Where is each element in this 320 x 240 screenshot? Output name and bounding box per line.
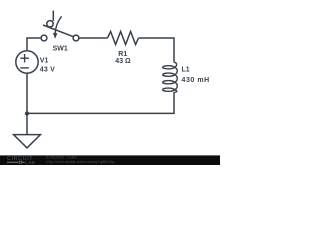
- wire: switch pole to resistor R1: [79, 37, 108, 39]
- inductor L1 coil loop 3: [163, 81, 174, 84]
- svg-text:R1: R1: [118, 51, 127, 58]
- V1 minus sign: [20, 67, 29, 69]
- voltage source V1 body: [16, 51, 38, 73]
- inductor L1 right connecting bumps: [174, 62, 177, 92]
- switch SW1 blade: [43, 25, 73, 37]
- svg-text:43 Ω: 43 Ω: [115, 58, 131, 65]
- svg-text:430 mH: 430 mH: [182, 77, 210, 84]
- switch SW1 top throw terminal: [47, 21, 53, 27]
- wire: V1 top lead to switch left terminal: [27, 38, 41, 51]
- watermark bar: [0, 155, 220, 165]
- svg-text:L1: L1: [182, 67, 190, 74]
- wire: junction to ground: [26, 113, 28, 134]
- wire: V1 bottom lead to junction: [26, 73, 28, 113]
- switch SW1 left terminal: [41, 35, 47, 41]
- wire: R1 to top-right corner down to inductor: [139, 38, 175, 62]
- switch SW1 actuator arrow: [55, 16, 62, 34]
- junction node dot: [25, 111, 29, 115]
- svg-text:SW1: SW1: [53, 46, 68, 53]
- inductor L1 coil loop 1: [163, 66, 174, 69]
- ground symbol: [14, 135, 41, 148]
- svg-text:LAB: LAB: [25, 160, 36, 165]
- wire: inductor bottom to bottom-right corner and along bottom: [27, 92, 174, 113]
- svg-text:http://circuitlab.com/cawkq7q4: http://circuitlab.com/cawkq7q480hlp: [46, 160, 115, 164]
- resistor R1 zigzag: [108, 32, 139, 45]
- switch SW1 open throw stub: [52, 11, 54, 21]
- V1 plus sign: [20, 57, 29, 59]
- inductor L1 coil loop 4: [163, 88, 174, 91]
- switch SW1 pole terminal (right): [73, 35, 79, 41]
- svg-text:kelly2002 / lab4: kelly2002 / lab4: [46, 156, 76, 160]
- svg-text:43 V: 43 V: [40, 66, 55, 73]
- svg-text:V1: V1: [40, 57, 49, 64]
- inductor L1 coil loop 2: [163, 73, 174, 76]
